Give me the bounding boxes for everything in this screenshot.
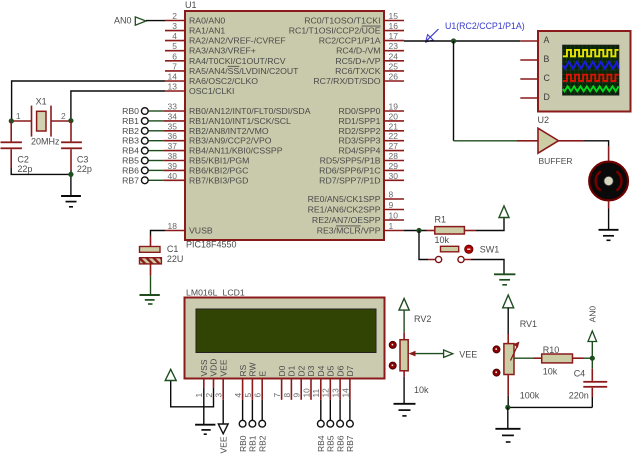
buffer U2 <box>517 115 584 166</box>
svg-text:15: 15 <box>389 11 399 21</box>
LCD pin 5 RW <box>243 362 258 399</box>
svg-text:7: 7 <box>172 61 177 71</box>
pin 36 RB3/AN9/CCP2/VPO with terminal RB3 <box>122 131 272 146</box>
ground below C1 <box>140 295 160 304</box>
svg-text:D3: D3 <box>306 365 316 376</box>
svg-text:D1: D1 <box>287 365 297 376</box>
pin 19 RD0/SPP0 right <box>338 102 404 117</box>
pin 10 RE right <box>312 211 404 226</box>
pin 21 RD2/SPP2 right <box>338 121 404 136</box>
wire pin14 OSC2 to crystal pin1 <box>12 81 165 121</box>
pin 2 RA0/AN0 left <box>165 11 225 26</box>
pin 27 RD4/SPP4 right <box>338 141 404 156</box>
svg-text:VEE: VEE <box>218 359 228 376</box>
oscilloscope input B <box>520 54 549 64</box>
svg-text:1: 1 <box>194 393 204 398</box>
LCD pin 12 D5 <box>321 365 336 399</box>
svg-text:D7: D7 <box>345 365 355 376</box>
svg-text:RB5: RB5 <box>122 156 139 166</box>
svg-text:6: 6 <box>253 393 263 398</box>
pin 23 right <box>336 41 404 56</box>
svg-text:A: A <box>544 35 550 45</box>
svg-text:RV1: RV1 <box>520 319 537 329</box>
svg-text:RE3/MCLR/VPP: RE3/MCLR/VPP <box>317 226 381 236</box>
svg-text:7: 7 <box>272 393 282 398</box>
svg-text:BUFFER: BUFFER <box>539 156 573 166</box>
svg-text:RD6/SPP6/P1C: RD6/SPP6/P1C <box>319 165 380 175</box>
svg-text:U1: U1 <box>185 0 197 10</box>
wire VUSB to C1 <box>151 231 166 247</box>
svg-text:23: 23 <box>389 41 399 51</box>
node crystal pin2 junction <box>68 118 73 123</box>
pin 29 RD6/SPP6/P1C right <box>319 161 404 176</box>
svg-text:RB6: RB6 <box>335 435 345 452</box>
svg-text:RB3: RB3 <box>122 136 139 146</box>
svg-text:RB1: RB1 <box>122 116 139 126</box>
ground below speaker <box>599 230 619 241</box>
svg-text:R10: R10 <box>543 345 560 355</box>
svg-text:30: 30 <box>389 171 399 181</box>
terminal RB1 below LCD <box>248 400 258 452</box>
svg-text:C4: C4 <box>574 368 586 378</box>
wire RV1 node to ground <box>507 407 509 428</box>
VEE output terminal right of RV2 <box>444 349 478 359</box>
svg-text:1: 1 <box>16 111 21 121</box>
ground below RV1 <box>495 429 520 442</box>
label PIC18F4550 <box>186 240 237 250</box>
pin 5 RA3/AN3/VREF+ left <box>165 41 256 56</box>
pin 30 RD7/SPP7/P1D right <box>319 171 404 186</box>
svg-text:C: C <box>544 73 551 83</box>
svg-text:RA2/AN2/VREF-/CVREF: RA2/AN2/VREF-/CVREF <box>189 36 286 46</box>
pin 22 RD3/SPP3 right <box>338 131 404 146</box>
LCD pin 11 D4 <box>311 365 326 399</box>
AN0 output terminal <box>588 306 598 359</box>
ground below SW1 <box>494 274 515 285</box>
svg-text:4: 4 <box>172 31 177 41</box>
potentiometer RV1 100k <box>493 319 540 400</box>
svg-text:4: 4 <box>233 393 243 398</box>
svg-text:10: 10 <box>301 388 311 398</box>
svg-text:RB4: RB4 <box>122 146 139 156</box>
oscilloscope input D <box>520 92 550 102</box>
svg-text:RV2: RV2 <box>414 314 431 324</box>
capacitor C1 22U electrolytic <box>140 244 184 276</box>
svg-text:RE1/AN6/CK2SPP: RE1/AN6/CK2SPP <box>308 205 381 215</box>
svg-text:RB2/AN8/INT2/VMO: RB2/AN8/INT2/VMO <box>189 126 269 136</box>
svg-text:C1: C1 <box>167 244 179 254</box>
wire SW1 to ground <box>464 260 504 274</box>
svg-text:RD0/SPP0: RD0/SPP0 <box>338 106 380 116</box>
terminal RB7 below LCD <box>345 400 355 452</box>
wire C2 to ground net <box>11 168 71 174</box>
switch SW1 <box>436 245 500 263</box>
svg-text:9: 9 <box>292 393 302 398</box>
svg-text:10k: 10k <box>414 385 429 395</box>
LCD pin 4 RS <box>233 364 248 399</box>
svg-text:3: 3 <box>172 21 177 31</box>
svg-text:22p: 22p <box>77 164 92 174</box>
svg-text:RB6/KBI2/PGC: RB6/KBI2/PGC <box>189 165 248 175</box>
speaker / sounder <box>589 162 628 201</box>
oscilloscope input A <box>520 35 549 45</box>
node RC2 junction <box>451 38 456 43</box>
pin 3 RA1/AN1 left <box>165 21 225 35</box>
svg-text:LCD1: LCD1 <box>223 288 245 298</box>
svg-text:VEE: VEE <box>459 349 477 359</box>
wire RV1 bottom to rail <box>507 375 509 408</box>
svg-text:RA3/AN3/VREF+: RA3/AN3/VREF+ <box>189 46 256 56</box>
RV1 wiper arrow <box>511 342 520 361</box>
svg-text:RC4/D-/VM: RC4/D-/VM <box>336 46 380 56</box>
svg-text:E: E <box>257 371 267 377</box>
svg-text:5: 5 <box>243 393 253 398</box>
svg-text:14: 14 <box>340 388 350 398</box>
svg-text:6: 6 <box>172 51 177 61</box>
pin 4 RA2/AN2/VREF-/CVREF left <box>165 31 286 46</box>
svg-text:39: 39 <box>168 161 178 171</box>
svg-text:RA1/AN1: RA1/AN1 <box>189 26 225 36</box>
wire C4 to bottom rail <box>591 397 593 407</box>
pin 18 VUSB left <box>165 221 213 236</box>
capacitor C3 22p <box>61 121 92 174</box>
potentiometer RV2 10k <box>389 314 431 395</box>
svg-text:17: 17 <box>389 31 399 41</box>
terminal RB5 below LCD <box>326 400 336 452</box>
svg-text:12: 12 <box>321 388 331 398</box>
svg-text:RD1/SPP1: RD1/SPP1 <box>338 116 380 126</box>
pin 17 right <box>319 31 404 46</box>
LCD pin 8 D1 <box>282 365 297 399</box>
power terminal above R1 <box>499 206 509 218</box>
wire pin13 OSC1 to crystal pin2 <box>71 91 165 121</box>
wire RC2 junction down to buffer input <box>454 41 518 141</box>
capacitor C4 220n <box>569 358 608 400</box>
node AN0 net junction <box>590 356 595 361</box>
pin 39 RB6/KBI2/PGC with terminal RB6 <box>122 161 248 176</box>
svg-text:PIC18F4550: PIC18F4550 <box>186 240 237 250</box>
svg-text:U1(RC2/CCP1/P1A): U1(RC2/CCP1/P1A) <box>445 21 525 31</box>
svg-text:35: 35 <box>168 121 178 131</box>
pin 8 RE right <box>308 190 404 205</box>
wire RV1 wiper to R10 <box>514 357 534 359</box>
svg-text:RD4/SPP4: RD4/SPP4 <box>338 146 380 156</box>
svg-text:RD2/SPP2: RD2/SPP2 <box>338 126 380 136</box>
svg-text:RB2: RB2 <box>257 435 267 452</box>
ground below crystal caps <box>61 196 81 207</box>
svg-text:RB1: RB1 <box>248 435 258 452</box>
svg-text:34: 34 <box>168 111 178 121</box>
wire pin17 RC2 to oscilloscope A <box>404 40 520 42</box>
pin 6 RA4/T0CKI/C1OUT/RCV left <box>165 51 286 66</box>
wire junction to SW1 <box>419 231 435 260</box>
pin 14 RA6/OSC2/CLKO left <box>165 72 258 87</box>
svg-text:RA0/AN0: RA0/AN0 <box>189 16 225 26</box>
svg-text:2: 2 <box>172 11 177 21</box>
oscilloscope module <box>538 31 631 112</box>
pin 35 RB2/AN8/INT2/VMO with terminal RB2 <box>122 121 269 136</box>
svg-text:14: 14 <box>168 72 178 82</box>
oscilloscope trace A yellow <box>563 50 619 56</box>
svg-text:RW: RW <box>248 362 258 376</box>
svg-text:22p: 22p <box>17 164 32 174</box>
wire LCD VDD to power <box>171 381 214 407</box>
LCD module LM016L LCD1 body <box>185 288 385 379</box>
LCD pin 2 VDD <box>204 359 219 398</box>
svg-text:RE2/AN7/OESPP: RE2/AN7/OESPP <box>312 215 381 225</box>
svg-text:36: 36 <box>168 131 178 141</box>
node C2 C3 ground junction <box>68 172 73 177</box>
LCD pin 9 D2 <box>292 365 307 399</box>
svg-text:B: B <box>544 54 550 64</box>
svg-text:2: 2 <box>61 111 66 121</box>
svg-text:10k: 10k <box>435 235 450 245</box>
wire R10 to AN0 node <box>584 357 593 359</box>
svg-text:33: 33 <box>168 102 178 112</box>
svg-text:RC6/TX/CK: RC6/TX/CK <box>335 66 381 76</box>
svg-text:10: 10 <box>389 211 399 221</box>
wire pin1 RE3 to R1 <box>404 230 427 232</box>
svg-text:8: 8 <box>389 190 394 200</box>
svg-text:11: 11 <box>311 389 321 398</box>
svg-text:RS: RS <box>238 364 248 376</box>
svg-text:LM016L: LM016L <box>186 288 218 298</box>
voltage probe U1(RC2/CCP1/P1A) <box>426 21 525 42</box>
pin 7 RA5/AN4/ left <box>165 61 299 76</box>
svg-text:22U: 22U <box>167 254 184 264</box>
terminal RB2 below LCD <box>257 400 267 452</box>
svg-text:RD3/SPP3: RD3/SPP3 <box>338 136 380 146</box>
svg-text:RA4/T0CKI/C1OUT/RCV: RA4/T0CKI/C1OUT/RCV <box>189 56 286 66</box>
svg-text:20: 20 <box>389 111 399 121</box>
svg-text:26: 26 <box>389 72 399 82</box>
svg-text:D2: D2 <box>296 365 306 376</box>
svg-text:19: 19 <box>389 102 399 112</box>
wire C3 to ground <box>70 170 72 195</box>
svg-text:RC7/RX/DT/SDO: RC7/RX/DT/SDO <box>313 76 380 86</box>
svg-text:3: 3 <box>214 393 224 398</box>
svg-text:RB7: RB7 <box>345 435 355 452</box>
svg-text:8: 8 <box>282 393 292 398</box>
oscilloscope trace B blue <box>563 62 619 69</box>
power terminal for LCD VDD <box>165 369 176 380</box>
svg-text:RB5: RB5 <box>326 435 336 452</box>
svg-text:AN0: AN0 <box>114 16 132 26</box>
svg-text:1: 1 <box>389 221 394 231</box>
svg-text:VUSB: VUSB <box>189 226 213 236</box>
svg-text:RB0/AN12/INT0/FLT0/SDI/SDA: RB0/AN12/INT0/FLT0/SDI/SDA <box>189 106 311 116</box>
svg-text:RB2: RB2 <box>122 126 139 136</box>
svg-text:OSC1/CLKI: OSC1/CLKI <box>189 86 234 96</box>
svg-text:RB7/KBI3/PGD: RB7/KBI3/PGD <box>189 175 248 185</box>
resistor R1 10k <box>427 215 476 246</box>
svg-text:RB5/KBI1/PGM: RB5/KBI1/PGM <box>189 156 249 166</box>
svg-text:RD5/SPP5/P1B: RD5/SPP5/P1B <box>320 156 381 166</box>
svg-text:13: 13 <box>168 82 178 92</box>
wire buffer output to speaker <box>584 141 609 161</box>
wire LCD VSS to ground <box>203 388 205 424</box>
svg-text:RB4/AN11/KBI0/CSSPP: RB4/AN11/KBI0/CSSPP <box>189 146 283 156</box>
LCD pin 3 VEE <box>214 359 229 400</box>
svg-text:X1: X1 <box>36 97 47 107</box>
svg-text:VDD: VDD <box>209 359 219 377</box>
svg-text:RB1/AN10/INT1/SCK/SCL: RB1/AN10/INT1/SCK/SCL <box>189 116 291 126</box>
svg-text:RB6: RB6 <box>122 165 139 175</box>
svg-text:5: 5 <box>172 41 177 51</box>
pin 13 OSC1/CLKI left <box>165 82 234 97</box>
svg-text:D4: D4 <box>316 365 326 376</box>
oscilloscope input C <box>520 73 550 83</box>
microcontroller U1 PIC18F4550 body <box>185 0 384 240</box>
svg-text:VSS: VSS <box>199 359 209 376</box>
svg-text:28: 28 <box>389 151 399 161</box>
pin 34 RB1/AN10/INT1/SCK/SCL with terminal RB1 <box>122 111 291 126</box>
power terminal above RV2 <box>399 299 409 340</box>
capacitor C2 22p <box>1 121 33 174</box>
svg-text:AN0: AN0 <box>588 306 598 323</box>
terminal RB4 below LCD <box>316 400 326 452</box>
svg-text:9: 9 <box>389 200 394 210</box>
svg-text:18: 18 <box>168 221 178 231</box>
svg-text:RE0/AN5/CK1SPP: RE0/AN5/CK1SPP <box>308 194 381 204</box>
svg-text:RA6/OSC2/CLKO: RA6/OSC2/CLKO <box>189 76 258 86</box>
svg-text:100k: 100k <box>520 390 540 400</box>
svg-text:RB0: RB0 <box>238 435 248 452</box>
svg-text:21: 21 <box>389 121 399 131</box>
svg-text:25: 25 <box>389 61 399 71</box>
svg-text:13: 13 <box>331 388 341 398</box>
LCD pin 10 D3 <box>301 365 316 399</box>
pin 33 RB0/AN12/INT0/FLT0/SDI/SDA with terminal RB0 <box>122 102 311 117</box>
svg-text:D0: D0 <box>277 365 287 376</box>
node RV1 bottom junction <box>505 405 510 410</box>
ground below RV2 <box>394 404 416 416</box>
input terminal AN0 <box>114 16 146 26</box>
svg-text:RC1/T1OSI/CCP2/UOE: RC1/T1OSI/CCP2/UOE <box>289 26 381 36</box>
svg-text:27: 27 <box>389 141 399 151</box>
pin 20 RD1/SPP1 right <box>338 111 404 126</box>
svg-text:D5: D5 <box>326 365 336 376</box>
svg-text:RC0/T1OSO/T1CKI: RC0/T1OSO/T1CKI <box>304 16 380 26</box>
wire AN0 to pin 2 <box>146 20 165 22</box>
svg-text:VEE: VEE <box>218 436 228 453</box>
wire speaker to ground <box>608 201 610 230</box>
svg-text:RD7/SPP7/P1D: RD7/SPP7/P1D <box>319 175 380 185</box>
svg-text:RB4: RB4 <box>316 435 326 452</box>
wire R1 to power <box>476 218 504 231</box>
VEE terminal below LCD pin3 <box>218 400 228 454</box>
svg-text:RB0: RB0 <box>122 106 139 116</box>
pin 37 RB4/AN11/KBI0/CSSPP with terminal RB4 <box>122 141 283 156</box>
pin 28 RD5/SPP5/P1B right <box>320 151 404 166</box>
svg-text:10k: 10k <box>543 366 558 376</box>
terminal RB6 below LCD <box>335 400 345 452</box>
power terminal above RV1 <box>503 295 514 344</box>
wire bottom rail RV1 to C4 <box>508 406 593 408</box>
crystal X1 <box>11 97 71 147</box>
svg-text:U2: U2 <box>538 115 550 125</box>
svg-text:R1: R1 <box>435 215 447 225</box>
LCD pin 13 D6 <box>331 365 346 399</box>
LCD pin 1 VSS <box>194 359 209 397</box>
pin 40 RB7/KBI3/PGD with terminal RB7 <box>122 171 248 186</box>
LCD pin 6 E <box>253 371 268 400</box>
svg-text:22: 22 <box>389 131 399 141</box>
LCD pin 7 D0 <box>272 365 287 399</box>
oscilloscope trace D green <box>563 86 619 91</box>
svg-text:D6: D6 <box>335 365 345 376</box>
pin 1 RE right <box>317 221 404 236</box>
oscilloscope trace C red <box>563 75 619 81</box>
svg-text:40: 40 <box>168 171 178 181</box>
svg-text:37: 37 <box>168 141 178 151</box>
svg-text:29: 29 <box>389 161 399 171</box>
svg-text:38: 38 <box>168 151 178 161</box>
svg-text:RB7: RB7 <box>122 175 139 185</box>
wire RV2 to ground <box>403 371 405 403</box>
svg-text:16: 16 <box>389 21 399 31</box>
resistor R10 10k <box>534 345 584 377</box>
pin 26 right <box>313 72 404 87</box>
LCD pin 14 D7 <box>340 365 355 399</box>
terminal RB0 below LCD <box>238 400 248 452</box>
pin 15 right <box>304 11 404 26</box>
pin 16 right <box>289 21 404 35</box>
svg-text:RC5/D+/VP: RC5/D+/VP <box>335 56 380 66</box>
svg-text:RC2/CCP1/P1A: RC2/CCP1/P1A <box>319 36 381 46</box>
svg-text:24: 24 <box>389 51 399 61</box>
node crystal pin1 junction <box>9 118 14 123</box>
svg-text:RA5/AN4/SS/LVDIN/C2OUT: RA5/AN4/SS/LVDIN/C2OUT <box>189 66 299 76</box>
svg-text:RB3/AN9/CCP2/VPO: RB3/AN9/CCP2/VPO <box>189 136 272 146</box>
svg-text:2: 2 <box>204 393 214 398</box>
wire C1 to ground <box>150 276 152 295</box>
pin 9 RE right <box>308 200 404 215</box>
svg-text:20MHz: 20MHz <box>31 137 60 147</box>
pin 24 right <box>335 51 404 66</box>
svg-text:D: D <box>544 92 550 102</box>
pin 25 right <box>335 61 404 76</box>
ground below LCD VSS <box>195 425 215 435</box>
pin 38 RB5/KBI1/PGM with terminal RB5 <box>122 151 249 166</box>
svg-text:SW1: SW1 <box>480 245 500 255</box>
node RE3 junction <box>416 228 421 233</box>
svg-text:220n: 220n <box>569 390 589 400</box>
RV2 wiper arrow and wire to VEE <box>409 351 444 357</box>
